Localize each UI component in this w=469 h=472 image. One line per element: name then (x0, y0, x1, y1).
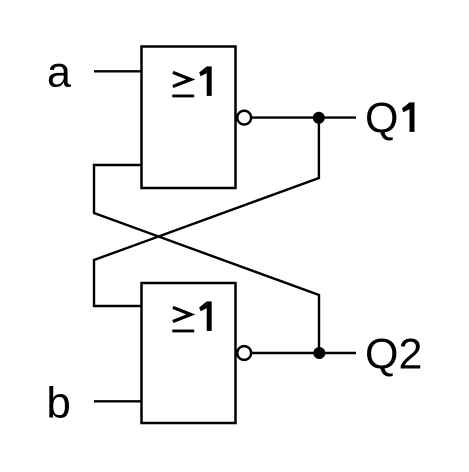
svg-text:Q2: Q2 (365, 331, 422, 379)
wire a input (94, 70, 142, 72)
svg-text:a: a (47, 48, 71, 96)
wire U1 output to Q1 (252, 116, 356, 118)
label greater-equal sign of U2 (172, 307, 194, 331)
inversion bubble U2 output (237, 346, 251, 360)
junction dot Q2 node (313, 347, 325, 359)
junction dot Q1 node (313, 112, 325, 124)
wire feedback from Q1 node to gate U2 upper input (94, 118, 319, 306)
label digit 1 of U1 (199, 66, 212, 96)
svg-text:b: b (46, 378, 70, 427)
svg-text:Q: Q (365, 94, 398, 142)
wire feedback from Q2 node to gate U1 lower input (94, 165, 319, 353)
NOR gate U1 body (142, 47, 236, 189)
label digit 1 of U2 (199, 301, 212, 331)
wire b input (94, 400, 142, 402)
inversion bubble U1 output (237, 111, 251, 125)
NOR gate U2 body (142, 283, 236, 423)
label greater-equal sign of U1 (172, 72, 194, 96)
wire U2 output to Q2 (252, 352, 356, 354)
